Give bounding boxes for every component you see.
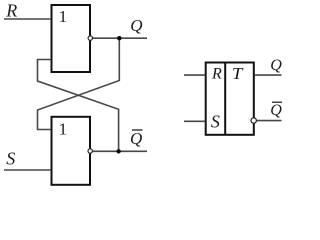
svg-text:1: 1: [59, 7, 68, 26]
svg-text:Q: Q: [130, 129, 142, 148]
svg-text:Q: Q: [270, 57, 282, 74]
svg-text:S: S: [211, 112, 220, 132]
svg-text:Q: Q: [270, 102, 282, 119]
svg-text:Q: Q: [130, 16, 142, 35]
svg-text:T: T: [232, 64, 244, 83]
svg-text:R: R: [211, 66, 222, 83]
svg-text:S: S: [6, 149, 15, 169]
svg-text:R: R: [5, 0, 17, 20]
svg-text:1: 1: [59, 120, 68, 139]
